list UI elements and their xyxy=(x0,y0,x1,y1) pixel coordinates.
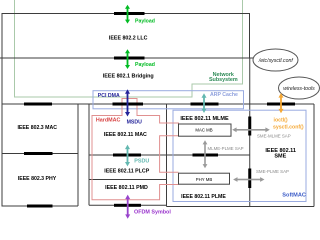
wire MAC/PLCP + MLME/PLME divider y=155 xyxy=(89,154,250,156)
wire outer right edge x=314 xyxy=(313,104,315,207)
box IEEE 802.2 LLC xyxy=(2,14,250,59)
network subsystem green boundary xyxy=(15,0,243,97)
wire main horizontal line y=104 xyxy=(2,103,315,105)
arrow ioctl orange xyxy=(279,93,284,113)
svg-text:SoftMAC: SoftMAC xyxy=(282,193,306,199)
wire right bottom y=206.5 xyxy=(167,206,315,208)
bus bar SME-PLME vertical xyxy=(248,169,251,189)
svg-text:IEEE 802.11 PLCP: IEEE 802.11 PLCP xyxy=(104,168,150,174)
arrow MSDU navy xyxy=(125,89,130,116)
svg-text:IEEE 802.3 MAC: IEEE 802.3 MAC xyxy=(17,125,57,131)
arrow ARP teal xyxy=(202,93,207,113)
svg-text:SME-PLME SAP: SME-PLME SAP xyxy=(256,169,289,174)
svg-text:MSDU: MSDU xyxy=(127,119,143,125)
bus bar OFDM xyxy=(114,204,141,207)
box PCI DMA / ARP Cache blue xyxy=(93,91,244,109)
bus bar 802.3 divider xyxy=(24,152,53,155)
bus bar ARP xyxy=(191,103,219,106)
box MAC MB xyxy=(179,124,232,136)
wire 802.3 bottom y=206 xyxy=(2,205,79,207)
svg-text:OFDM Symbol: OFDM Symbol xyxy=(134,209,171,215)
HardMAC red boundary part 2 xyxy=(160,136,179,173)
svg-text:Payload: Payload xyxy=(135,18,155,24)
arrow SME-PLME SAP gray xyxy=(233,177,264,182)
arrow SME-MLME SAP gray xyxy=(232,127,270,132)
svg-text:Subsystem: Subsystem xyxy=(209,77,238,83)
svg-text:IEEE 802.1 Bridging: IEEE 802.1 Bridging xyxy=(103,73,154,79)
svg-text:PSDU: PSDU xyxy=(134,159,149,165)
svg-text:SME-MLME SAP: SME-MLME SAP xyxy=(257,133,291,138)
bus bar ioctl xyxy=(267,103,295,106)
bus bar 802.3 MAC top xyxy=(24,103,52,106)
wire 802.3 divider y=153.5 xyxy=(2,153,78,155)
svg-text:IEEE 802.11 MAC: IEEE 802.11 MAC xyxy=(104,132,147,138)
svg-text:wireless-tools: wireless-tools xyxy=(283,86,315,92)
svg-text:PCI DMA: PCI DMA xyxy=(98,93,120,99)
svg-text:SME: SME xyxy=(274,154,286,160)
box IEEE 802.3 MAC xyxy=(77,104,79,206)
bus bar MLME-PLME xyxy=(193,154,219,157)
box 802.11 middle column right edge xyxy=(166,104,168,207)
arrow payload 1 green xyxy=(125,5,130,24)
bus bar SME-MLME vertical xyxy=(248,117,251,136)
svg-text:HardMAC: HardMAC xyxy=(96,117,121,123)
svg-text:IEEE 802.3 PHY: IEEE 802.3 PHY xyxy=(18,176,57,182)
bus bar PSDU xyxy=(113,154,141,157)
bus bar MSDU xyxy=(113,103,144,106)
arrow OFDM purple xyxy=(125,195,130,219)
ellipse /etc/sysctl.conf xyxy=(253,49,298,71)
svg-text:PHY MB: PHY MB xyxy=(196,177,213,182)
wire PLCP/PMD divider y=181 xyxy=(89,179,167,181)
wire MLME/SME divider x=250 xyxy=(249,58,251,207)
svg-text:IEEE 802.11 PLME: IEEE 802.11 PLME xyxy=(181,194,226,200)
svg-text:IEEE 802.2 LLC: IEEE 802.2 LLC xyxy=(109,36,148,42)
wire bridging top line y=58 xyxy=(0,57,255,59)
svg-text:/etc/sysctl.conf: /etc/sysctl.conf xyxy=(258,58,294,64)
svg-text:Payload: Payload xyxy=(135,62,155,68)
svg-text:IEEE 802.11 MLME: IEEE 802.11 MLME xyxy=(180,116,229,122)
box SoftMAC blue boundary xyxy=(173,110,306,201)
svg-text:ARP Cache: ARP Cache xyxy=(210,92,238,98)
box 802.11 middle column left edge xyxy=(88,104,90,205)
HardMAC red boundary xyxy=(92,99,179,200)
box PHY MB xyxy=(179,173,230,184)
arrow PSDU teal xyxy=(125,145,130,167)
bus bar LLC top xyxy=(114,12,145,15)
ellipse wireless-tools xyxy=(279,77,320,99)
svg-text:sysctl.conf(): sysctl.conf() xyxy=(273,124,304,130)
svg-text:ioctl(): ioctl() xyxy=(274,117,288,123)
svg-text:MLME-PLME SAP: MLME-PLME SAP xyxy=(208,146,244,151)
arrow payload 2 green xyxy=(125,49,130,69)
wire middle column bottom y=205.3 xyxy=(89,204,167,206)
bus bar 802.3 PHY bottom xyxy=(27,205,53,208)
arrow MLME-PLME SAP gray xyxy=(203,140,208,168)
wire left edge x=1.5 xyxy=(1,58,3,206)
svg-text:MAC MB: MAC MB xyxy=(195,127,212,132)
svg-text:IEEE 802.11 PMD: IEEE 802.11 PMD xyxy=(105,185,148,191)
bus bar bridging top xyxy=(114,57,145,60)
